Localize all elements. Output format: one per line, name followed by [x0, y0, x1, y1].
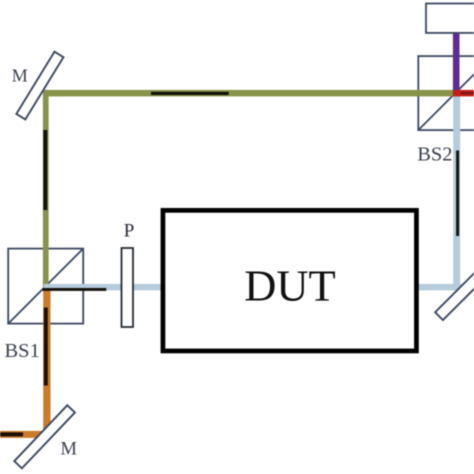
svg-text:BS1: BS1: [5, 340, 40, 362]
svg-text:M: M: [12, 65, 28, 85]
svg-text:DUT: DUT: [244, 261, 335, 311]
svg-text:P: P: [124, 221, 135, 242]
svg-text:M: M: [61, 440, 77, 460]
svg-text:BS2: BS2: [417, 143, 452, 165]
